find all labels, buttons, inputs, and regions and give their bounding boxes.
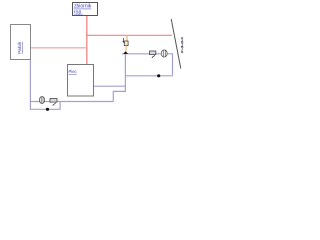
svg-text:Piec: Piec xyxy=(69,69,77,74)
svg-text:Palnik: Palnik xyxy=(17,41,22,54)
svg-text:rop.: rop. xyxy=(74,10,83,16)
